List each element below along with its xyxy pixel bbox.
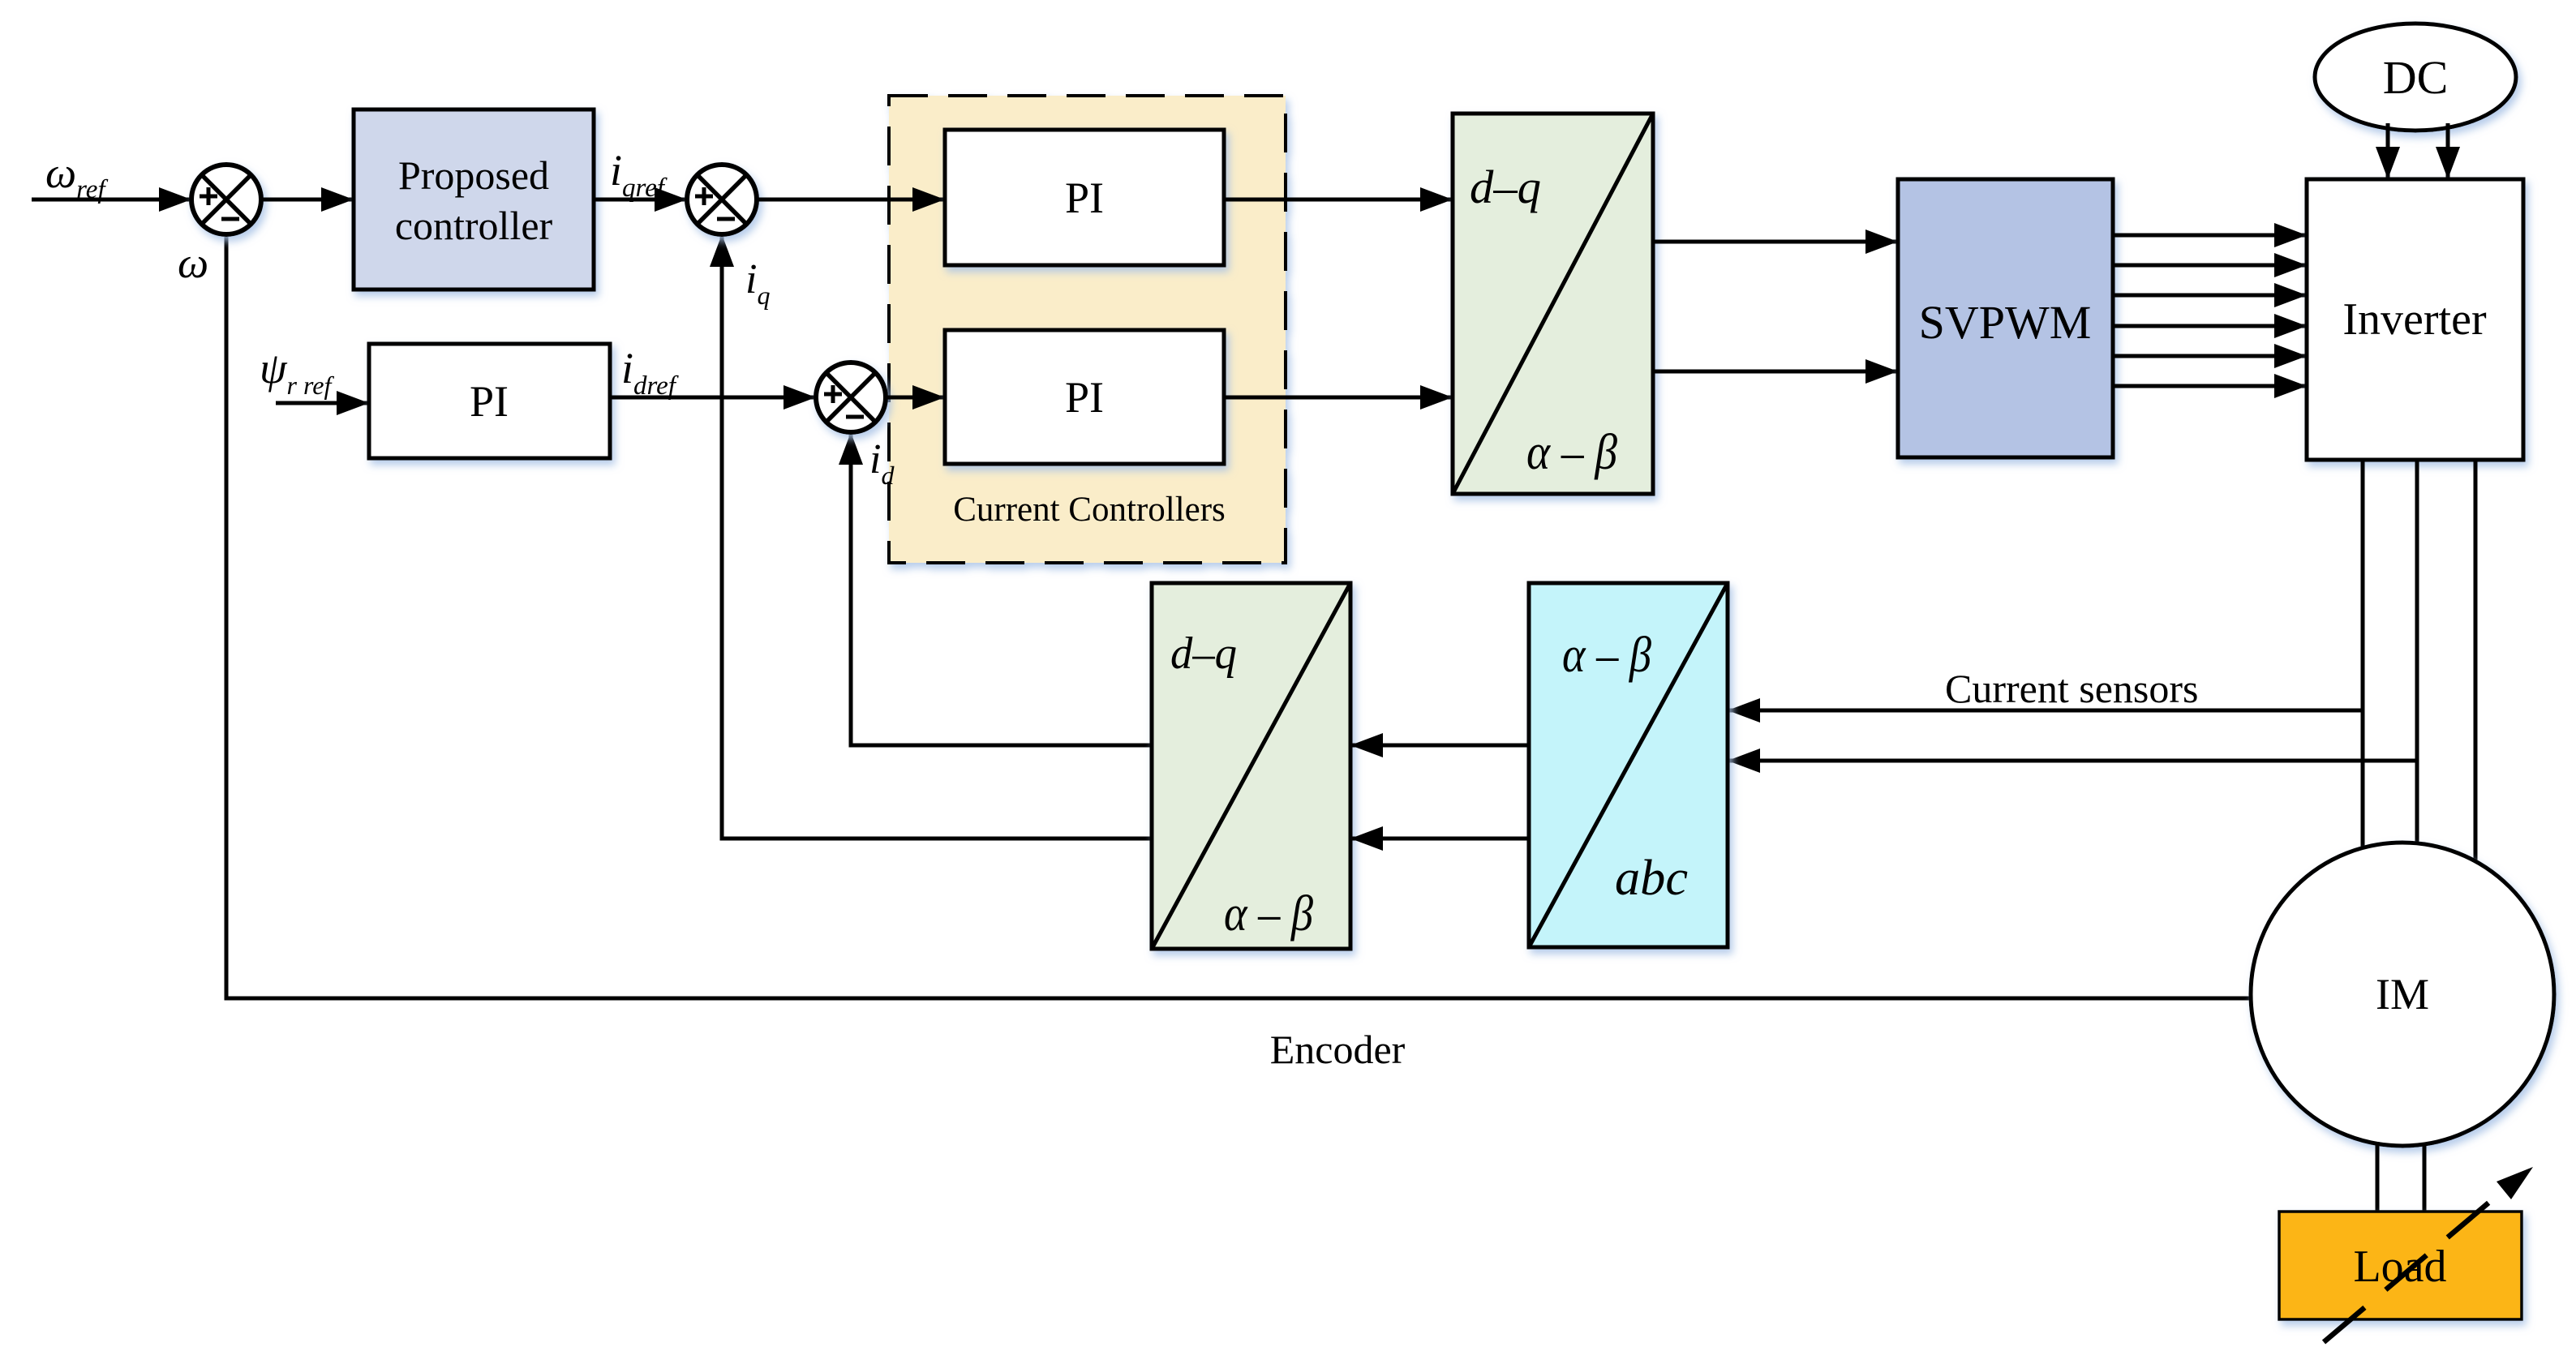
svg-text:ψr ref: ψr ref	[260, 344, 334, 400]
svg-text:iq: iq	[745, 256, 770, 310]
svg-text:α – β: α – β	[1562, 628, 1651, 683]
svg-text:Load: Load	[2353, 1242, 2446, 1292]
svg-text:Encoder: Encoder	[1270, 1027, 1406, 1072]
svg-text:d–q: d–q	[1170, 628, 1237, 679]
svg-text:PI: PI	[470, 377, 509, 426]
svg-text:PI: PI	[1065, 373, 1104, 422]
svg-text:DC: DC	[2383, 51, 2449, 104]
svg-text:idref: idref	[621, 344, 679, 401]
svg-text:abc: abc	[1615, 851, 1688, 906]
svg-text:ω: ω	[178, 238, 208, 287]
svg-text:iqref: iqref	[610, 146, 668, 203]
svg-text:Current Controllers: Current Controllers	[953, 491, 1226, 529]
svg-text:IM: IM	[2376, 970, 2429, 1019]
svg-text:Proposed: Proposed	[398, 152, 549, 198]
svg-text:α – β: α – β	[1526, 425, 1617, 480]
svg-text:SVPWM: SVPWM	[1919, 296, 2092, 349]
svg-text:α – β: α – β	[1224, 886, 1313, 942]
svg-text:Inverter: Inverter	[2342, 294, 2487, 345]
svg-text:d–q: d–q	[1470, 161, 1541, 213]
svg-text:ωref: ωref	[45, 148, 108, 204]
svg-text:controller: controller	[395, 203, 553, 248]
svg-text:Current sensors: Current sensors	[1945, 666, 2198, 711]
svg-text:PI: PI	[1065, 174, 1104, 222]
